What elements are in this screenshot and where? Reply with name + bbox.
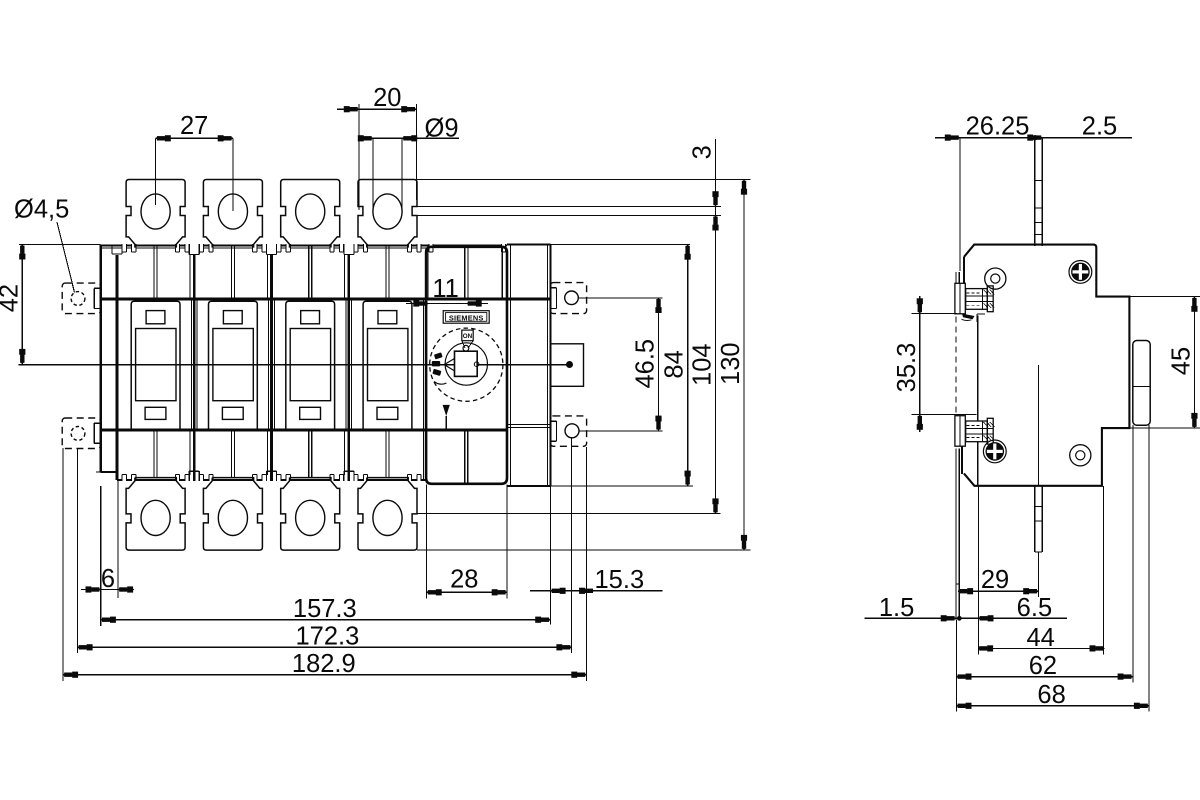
mounting bracket upper left <box>62 283 100 314</box>
dimension 15.3 <box>549 486 551 625</box>
svg-text:84: 84 <box>661 350 689 378</box>
screw head phillips lower left <box>983 440 1006 463</box>
din rail <box>955 272 957 285</box>
mounting bracket lower right <box>550 416 586 446</box>
svg-text:42: 42 <box>0 284 23 312</box>
dimension 29 <box>1037 552 1039 597</box>
handle shaft bottom <box>1034 486 1036 552</box>
bottom notches pole 4 <box>354 475 358 482</box>
dimension 35.3 <box>912 313 958 315</box>
svg-text:Ø9: Ø9 <box>425 114 459 142</box>
terminal lug top T1 <box>126 180 185 248</box>
lug hole bottom B2 <box>218 500 247 535</box>
pole module 2 <box>209 301 258 430</box>
dimension 157.3 <box>549 486 551 625</box>
module row top boundary <box>101 298 551 301</box>
lug hole top T1 <box>141 194 170 229</box>
svg-text:SIEMENS: SIEMENS <box>449 313 484 322</box>
dimension 44 <box>1103 486 1105 655</box>
svg-text:15.3: 15.3 <box>595 566 645 594</box>
clip nose top <box>962 314 975 320</box>
end section rails <box>510 245 512 485</box>
centerline front view <box>18 364 454 366</box>
svg-text:130: 130 <box>717 342 745 385</box>
terminal lug bottom B2 <box>203 478 262 550</box>
mounting bracket upper right <box>550 283 586 314</box>
lug hole top T3 <box>296 194 325 229</box>
lug hole bottom B1 <box>141 500 170 535</box>
side centerline <box>1037 365 1039 486</box>
terminal lug bottom B4 <box>358 478 417 550</box>
switch body outline front <box>101 244 507 246</box>
handle knob <box>455 351 478 376</box>
side view body outline <box>964 245 1130 486</box>
actuator top row sub-panels <box>464 247 466 300</box>
svg-text:182.9: 182.9 <box>292 650 356 678</box>
bottom notches pole 2 <box>199 475 203 482</box>
svg-text:Ø4,5: Ø4,5 <box>14 196 69 224</box>
pole dividers <box>189 243 199 254</box>
terminal lug top T2 <box>203 180 262 248</box>
off pointer wedge <box>444 359 454 371</box>
din rail clip top <box>955 283 965 314</box>
dimension 84 <box>687 245 689 486</box>
lug hole bottom B4 <box>373 500 402 535</box>
din rail top hat bar <box>1133 341 1150 426</box>
svg-text:62: 62 <box>1029 652 1057 680</box>
dimension 42 <box>19 243 100 245</box>
svg-text:29: 29 <box>981 566 1009 594</box>
svg-text:6: 6 <box>101 565 115 593</box>
terminal lug bottom B1 <box>126 478 185 550</box>
svg-text:68: 68 <box>1037 681 1065 709</box>
dimension 45 <box>1129 296 1200 298</box>
shaft end box right <box>550 344 583 387</box>
bottom notches pole 3 <box>277 475 281 482</box>
dimension 27 <box>155 138 157 205</box>
dimension 172.3 <box>76 448 78 653</box>
svg-text:6.5: 6.5 <box>1017 594 1052 622</box>
handle shaft top <box>1034 138 1036 246</box>
terminal lug top T3 <box>281 180 340 248</box>
screw head plain upper <box>985 268 1006 289</box>
pole module 4 <box>363 301 412 430</box>
rotary handle dashed circle <box>430 328 503 401</box>
mounting bracket lower left <box>62 418 100 449</box>
svg-text:104: 104 <box>689 343 717 386</box>
screw head plain lower right <box>1070 445 1091 466</box>
terminal lug bottom B3 <box>281 478 340 550</box>
lug hole top T4 <box>373 194 402 229</box>
rotation arrow <box>443 405 450 416</box>
module row bottom boundary <box>101 428 507 431</box>
svg-text:27: 27 <box>180 112 208 140</box>
terminal lug top T4 <box>358 180 417 248</box>
svg-text:35.3: 35.3 <box>893 343 921 393</box>
svg-text:20: 20 <box>373 84 401 112</box>
svg-text:172.3: 172.3 <box>295 622 359 650</box>
lug hole top T2 <box>218 194 247 229</box>
actuator module panel <box>426 247 507 484</box>
side view left edge <box>963 257 965 284</box>
svg-text:2.5: 2.5 <box>1082 113 1117 141</box>
padlock markings <box>432 352 443 376</box>
svg-text:157.3: 157.3 <box>293 595 357 623</box>
dimension 11 <box>406 303 488 305</box>
dimension diameter 9 <box>372 138 374 211</box>
dimension 46.5 <box>658 298 660 431</box>
actuator top notches <box>429 243 433 252</box>
dimension 68 <box>1148 425 1150 711</box>
screw head phillips upper right <box>1069 261 1092 284</box>
lug reference lines right <box>417 179 751 181</box>
dimension 130 <box>743 180 745 551</box>
recessed left face <box>977 316 979 486</box>
dimension 182.9 <box>62 448 64 681</box>
bottom notches pole 1 <box>122 475 126 482</box>
left end plate top edge <box>101 245 112 247</box>
dimension 20 <box>358 104 360 210</box>
dimension 6 <box>100 486 102 626</box>
lower lip <box>961 446 963 474</box>
pole module 1 <box>131 301 180 430</box>
svg-text:45: 45 <box>1167 347 1195 375</box>
din rail clip bottom <box>955 416 965 447</box>
dimension 104 <box>715 232 717 514</box>
lug hole bottom B3 <box>296 500 325 535</box>
svg-text:28: 28 <box>450 566 478 594</box>
dimension 28 <box>426 485 428 599</box>
ON indicator <box>462 330 473 341</box>
svg-text:44: 44 <box>1027 624 1055 652</box>
actuator bottom row sub-panels <box>464 430 466 484</box>
svg-text:26.25: 26.25 <box>966 113 1030 141</box>
svg-text:46.5: 46.5 <box>632 339 660 389</box>
dimension 1.5 and 6.5 <box>977 486 979 655</box>
left end divider <box>115 255 118 480</box>
SIEMENS label <box>443 311 489 324</box>
svg-text:ON: ON <box>463 333 473 340</box>
svg-text:1.5: 1.5 <box>879 594 914 622</box>
svg-text:3: 3 <box>689 145 717 159</box>
dimension 26.25 <box>959 138 961 271</box>
dimension 62 <box>1132 425 1134 682</box>
svg-text:11: 11 <box>432 275 458 303</box>
dimension 3 <box>715 139 717 232</box>
rotary handle inner circle <box>445 343 487 385</box>
pole module 3 <box>286 301 335 430</box>
